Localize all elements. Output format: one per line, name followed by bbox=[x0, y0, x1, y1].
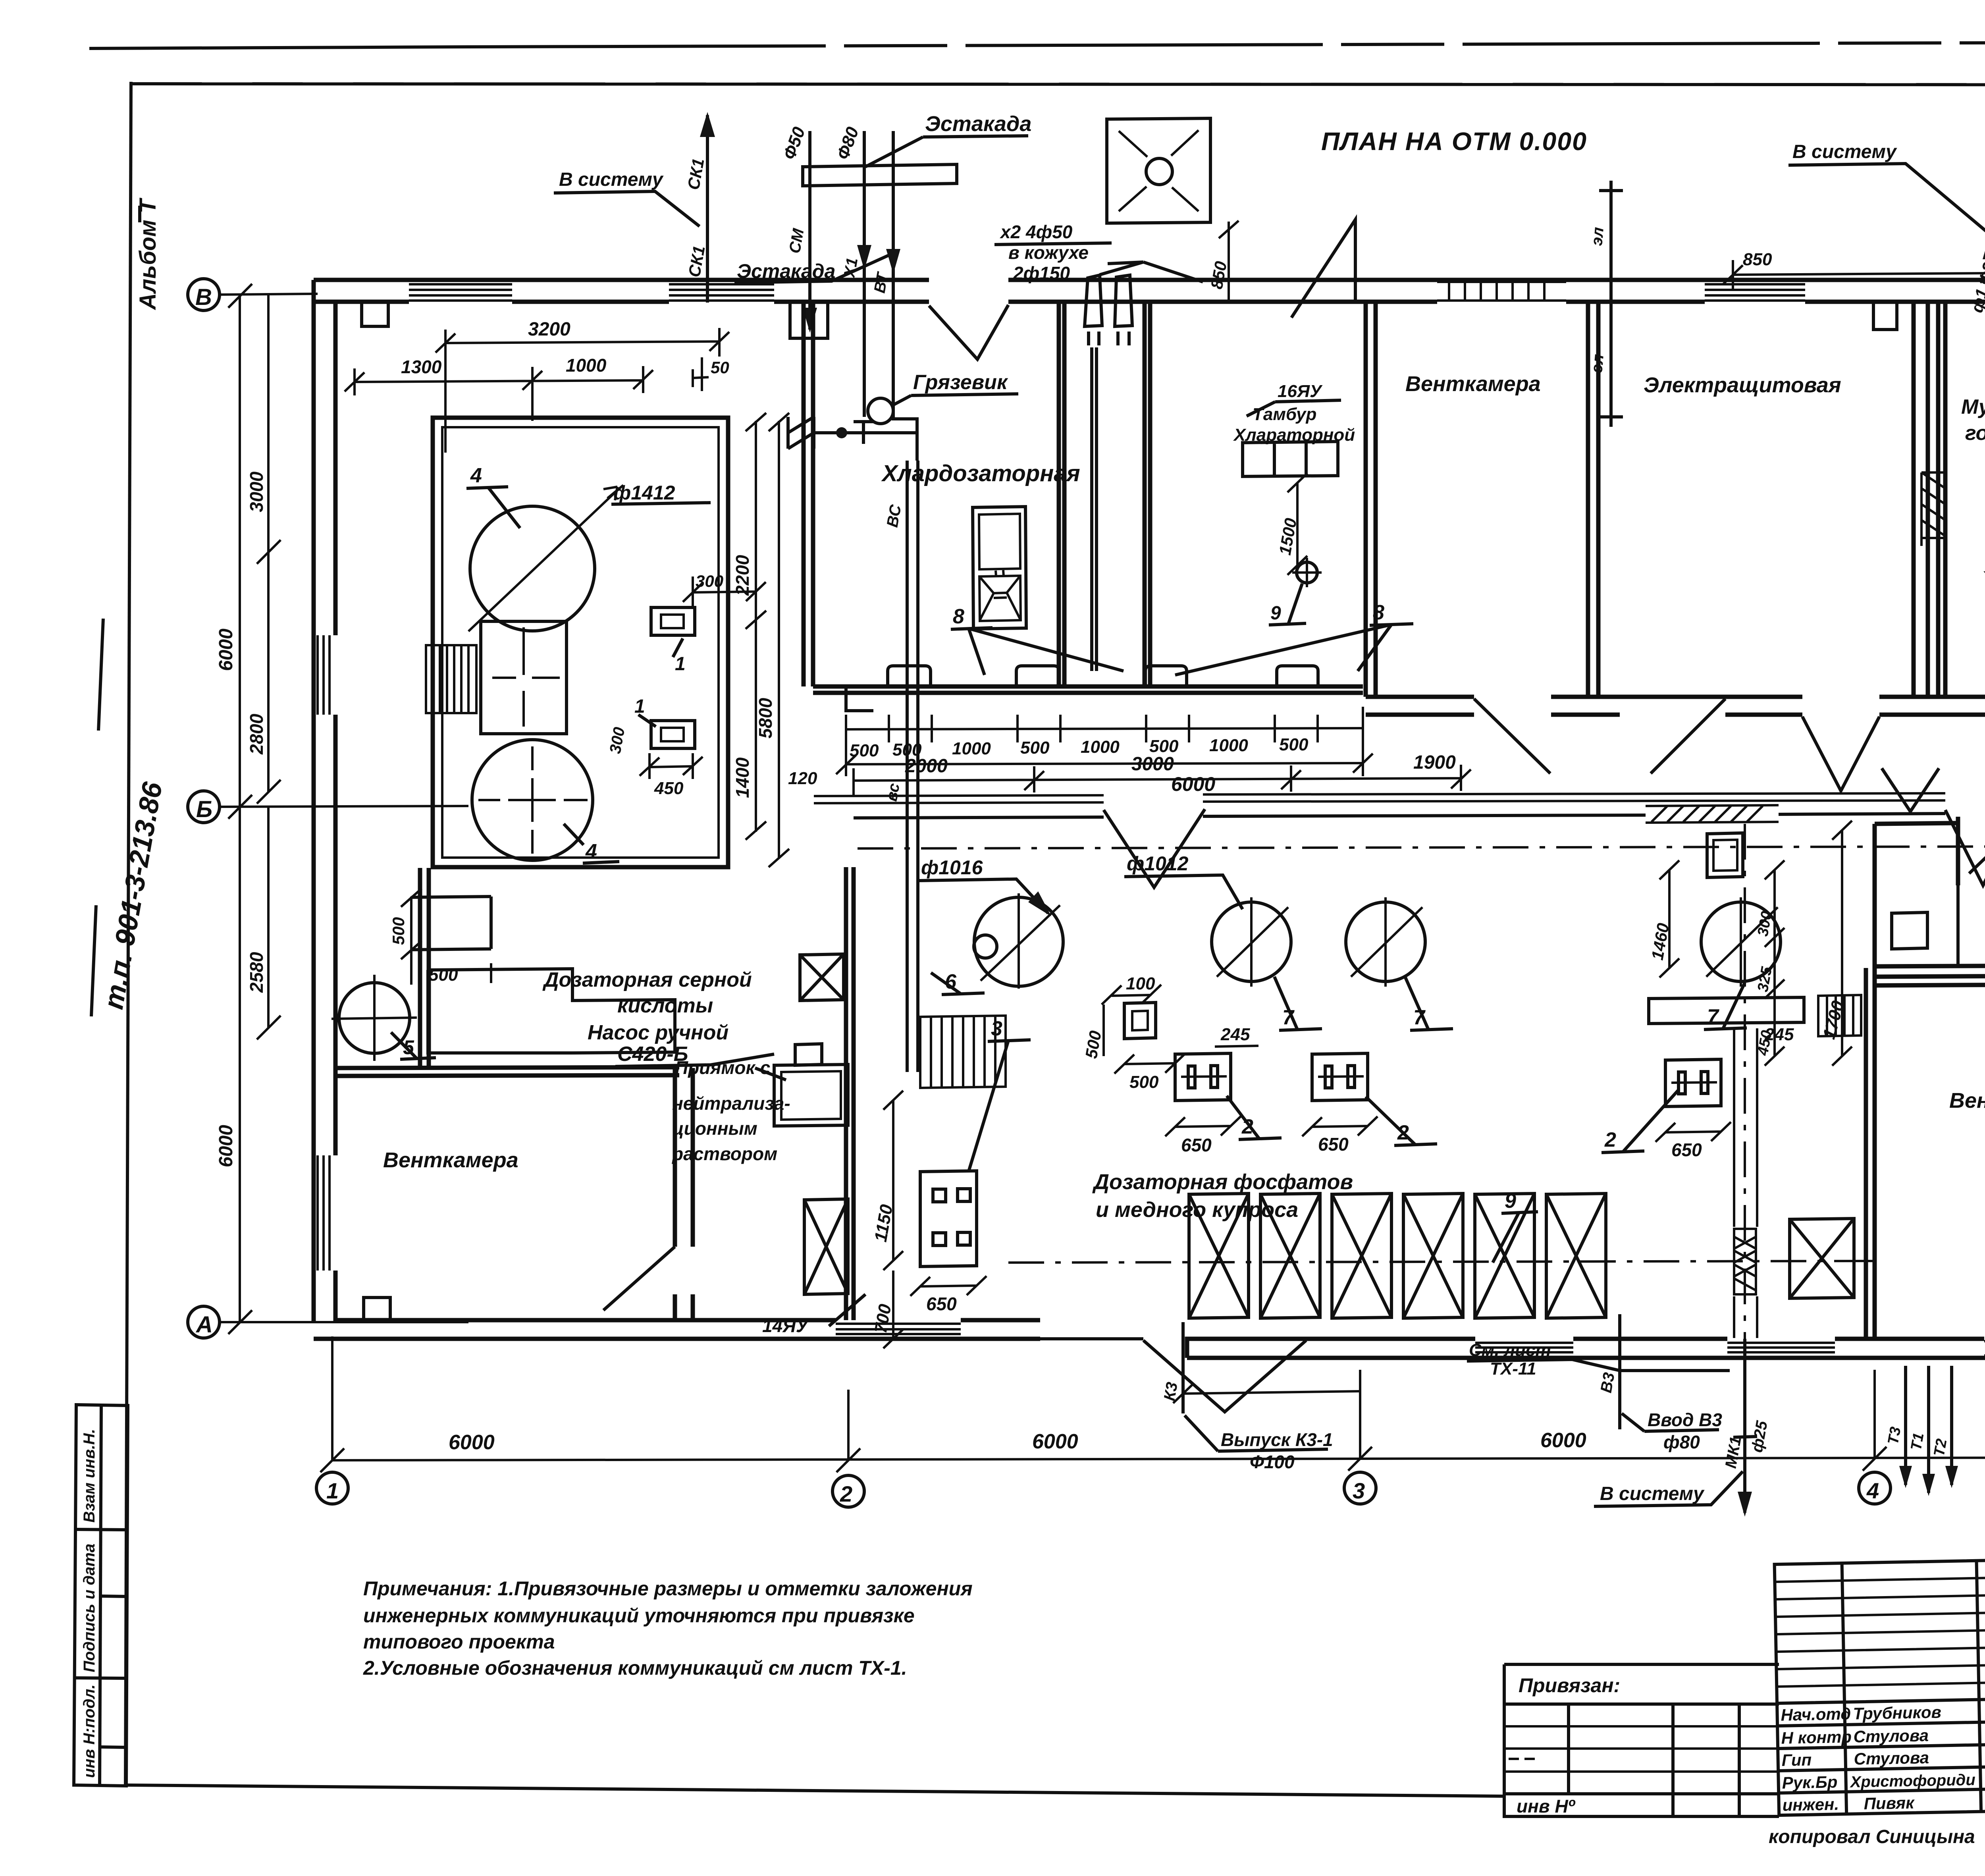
svg-text:х2 4ф50: х2 4ф50 bbox=[999, 222, 1073, 242]
T3 T1 T2 risers bbox=[1906, 1366, 1952, 1493]
stairs block bbox=[920, 1016, 1006, 1088]
svg-text:9: 9 bbox=[1270, 603, 1281, 624]
svg-text:Хлардозаторная: Хлардозаторная bbox=[881, 461, 1080, 486]
svg-text:6000: 6000 bbox=[1171, 773, 1215, 795]
stamp thin rows bbox=[1775, 1577, 1985, 1687]
left bottom stamp table bbox=[74, 1405, 128, 1786]
bottom wall right outer bbox=[1187, 1356, 1985, 1360]
svg-text:Венткамера: Венткамера bbox=[383, 1148, 518, 1172]
svg-text:Стулова: Стулова bbox=[1853, 1726, 1929, 1746]
svg-text:Взам инв.Н.: Взам инв.Н. bbox=[81, 1429, 98, 1523]
niche box pipes-entry bbox=[790, 303, 828, 338]
svg-text:2.Условные обозначения коммуни: 2.Условные обозначения коммуникаций см л… bbox=[363, 1657, 907, 1679]
svg-text:См. лист: См. лист bbox=[1469, 1340, 1551, 1360]
S420 pump rect bbox=[795, 1044, 822, 1065]
bottom wall left outer bbox=[314, 1337, 1040, 1341]
frame bottom bbox=[125, 1785, 1504, 1796]
svg-text:1000: 1000 bbox=[1209, 736, 1248, 755]
RIGHTROOMS bbox=[1866, 768, 1985, 1339]
svg-text:1000: 1000 bbox=[952, 739, 991, 758]
svg-text:Нач.отд: Нач.отд bbox=[1781, 1704, 1851, 1724]
grid bubble B bbox=[188, 791, 220, 823]
svg-text:Т2: Т2 bbox=[1931, 1438, 1950, 1458]
grid bubble A bbox=[188, 1306, 220, 1338]
left wall inner bbox=[333, 302, 338, 1322]
bottom wall left inner bbox=[335, 1318, 1040, 1323]
svg-text:Подпись и дата: Подпись и дата bbox=[81, 1544, 98, 1672]
left ventkamera top wall bbox=[335, 1067, 679, 1076]
svg-text:2ф150: 2ф150 bbox=[1013, 263, 1070, 283]
estakada rack bar bbox=[803, 164, 957, 186]
svg-text:1900: 1900 bbox=[1413, 752, 1456, 773]
toilet stall partitions bbox=[1958, 828, 1985, 965]
sanitary fixture bbox=[973, 507, 1026, 629]
upper band bottom wall bbox=[1366, 695, 1985, 699]
svg-text:ф80: ф80 bbox=[1663, 1432, 1700, 1452]
door V hall left bbox=[1104, 809, 1205, 887]
svg-text:8: 8 bbox=[953, 605, 964, 628]
svg-text:Х1: Х1 bbox=[840, 256, 861, 280]
toilet bottom wall bbox=[1875, 965, 1985, 966]
pipe X1 bbox=[863, 131, 866, 417]
svg-text:вс: вс bbox=[883, 782, 903, 802]
dim 1300 1000 bbox=[345, 366, 653, 421]
grid bubble 4 bbox=[1859, 1472, 1891, 1504]
priyamok small square bbox=[1124, 1003, 1156, 1039]
svg-text:6000: 6000 bbox=[1032, 1430, 1078, 1453]
svg-text:3200: 3200 bbox=[528, 319, 570, 340]
door V hall right bbox=[1945, 809, 1985, 885]
svg-text:5800: 5800 bbox=[755, 698, 776, 738]
svg-text:2800: 2800 bbox=[246, 713, 267, 755]
dim 650 c bbox=[1655, 1122, 1731, 1142]
dim 500 lower left bbox=[401, 889, 422, 959]
TITLEBLOCK bbox=[1775, 1550, 1985, 1817]
tank room walls inner bbox=[442, 427, 719, 858]
svg-text:Христофориди: Христофориди bbox=[1849, 1771, 1975, 1791]
svg-text:копировал Синицына: копировал Синицына bbox=[1769, 1826, 1975, 1847]
svg-text:нейтрализа-: нейтрализа- bbox=[672, 1093, 790, 1114]
small rect below tankroom bbox=[411, 897, 491, 950]
door leaf ventkamera bbox=[1474, 699, 1550, 773]
dim 1700 slanted bbox=[1832, 821, 1852, 1066]
svg-text:инженерных коммуникаций уточня: инженерных коммуникаций уточняются при п… bbox=[363, 1604, 915, 1627]
svg-text:Эстакада: Эстакада bbox=[925, 112, 1031, 136]
hall top thin wall bbox=[814, 792, 1985, 796]
svg-text:4: 4 bbox=[585, 840, 597, 863]
hall center dashdot bbox=[858, 846, 1985, 848]
dim 650 a bbox=[1165, 1116, 1241, 1136]
bottom wall right jog bbox=[1187, 1339, 1306, 1358]
svg-text:2000: 2000 bbox=[905, 756, 948, 777]
top wall gate door 2 bbox=[1291, 220, 1355, 318]
svg-text:500: 500 bbox=[1149, 737, 1179, 756]
svg-text:300: 300 bbox=[696, 572, 723, 590]
corridor V above sanuzel 1 bbox=[1882, 768, 1939, 812]
svg-text:Венткамера: Венткамера bbox=[1405, 372, 1541, 396]
dim 500 below bbox=[1114, 1054, 1185, 1074]
svg-text:2: 2 bbox=[1604, 1128, 1616, 1151]
svg-text:Насос ручной: Насос ручной bbox=[588, 1021, 728, 1044]
pump pad 2 a bbox=[1175, 1053, 1231, 1101]
svg-text:500: 500 bbox=[429, 965, 458, 985]
X-box on grid2 upper bbox=[800, 954, 844, 1001]
V3 riser bbox=[1618, 1314, 1621, 1429]
svg-text:В: В bbox=[195, 284, 212, 310]
canopy square with X bbox=[1107, 118, 1210, 223]
dim line k3 bbox=[1173, 1384, 1360, 1403]
svg-text:6000: 6000 bbox=[216, 629, 237, 671]
svg-text:Мужской: Мужской bbox=[1961, 395, 1985, 418]
svg-text:инв Нº: инв Нº bbox=[1517, 1796, 1576, 1816]
left dim line 3000/2800/2580 bbox=[267, 295, 270, 1028]
svg-text:В систему: В систему bbox=[1600, 1483, 1705, 1504]
grid bubble V bbox=[188, 279, 220, 310]
svg-text:Пивяк: Пивяк bbox=[1864, 1793, 1915, 1813]
left wall window band 2 bbox=[318, 1155, 330, 1271]
grid bubble 1 bbox=[316, 1472, 348, 1504]
left wall window band 1 bbox=[318, 635, 330, 715]
X-box row bbox=[1189, 1193, 1606, 1318]
svg-text:инв Н:подл.: инв Н:подл. bbox=[81, 1684, 98, 1778]
svg-text:7: 7 bbox=[1707, 1005, 1719, 1028]
svg-text:6000: 6000 bbox=[449, 1431, 495, 1454]
hatch band on hall wall bbox=[1646, 805, 1779, 823]
item 1 lower bbox=[651, 721, 695, 748]
stamp outer box bbox=[1775, 1550, 1985, 1815]
dim 850 right bbox=[1723, 260, 1985, 290]
svg-text:500: 500 bbox=[1020, 738, 1050, 758]
dim 300 upper bbox=[683, 576, 766, 607]
dim 850 top bbox=[1219, 221, 1239, 302]
chlorator 1 bbox=[1085, 275, 1102, 345]
tank upper diameter line bbox=[468, 485, 623, 631]
svg-text:3000: 3000 bbox=[1131, 754, 1174, 775]
item 8 block 2 bbox=[1016, 666, 1059, 686]
svg-text:500: 500 bbox=[389, 917, 408, 945]
top wall crenellated band 1 bbox=[1437, 282, 1566, 301]
shelf rect near MK1 bbox=[1649, 997, 1804, 1024]
svg-text:4: 4 bbox=[1866, 1478, 1879, 1503]
washbasin 1 bbox=[1892, 912, 1927, 949]
toilet top wall bbox=[1875, 820, 1985, 824]
item 8 block 1 bbox=[888, 666, 931, 686]
svg-text:Б: Б bbox=[196, 796, 212, 822]
dim 450 bbox=[640, 753, 703, 779]
bottom wall left window band bbox=[836, 1324, 961, 1334]
svg-text:50: 50 bbox=[711, 358, 729, 377]
pump pad 2 b bbox=[1312, 1053, 1368, 1101]
dim string 500s bbox=[846, 715, 1363, 742]
svg-text:500: 500 bbox=[1129, 1072, 1159, 1092]
item 1 upper bbox=[651, 607, 695, 635]
top wall window band 1 bbox=[409, 284, 512, 301]
svg-text:Дозаторная серной: Дозаторная серной bbox=[542, 968, 752, 991]
pipe VT bbox=[893, 131, 917, 461]
filter circle 2 f1012 bbox=[1212, 902, 1291, 981]
priyamok box bbox=[774, 1064, 848, 1126]
grid row line B bbox=[220, 806, 468, 807]
dim 500 rotated bbox=[1102, 1005, 1105, 1056]
svg-text:450: 450 bbox=[654, 779, 684, 798]
svg-text:Т1: Т1 bbox=[1908, 1432, 1927, 1452]
svg-text:Дозаторная фосфатов: Дозаторная фосфатов bbox=[1092, 1170, 1353, 1194]
svg-text:Привязан:: Привязан: bbox=[1519, 1674, 1620, 1697]
svg-text:245: 245 bbox=[1220, 1025, 1250, 1044]
MK1 riser dashdot bbox=[1744, 824, 1746, 1339]
svg-text:650: 650 bbox=[1671, 1139, 1702, 1160]
svg-text:ПЛАН НА ОТМ 0.000: ПЛАН НА ОТМ 0.000 bbox=[1321, 127, 1587, 156]
tank circle lower bbox=[472, 740, 593, 860]
bottom wall right inner bbox=[1306, 1337, 1985, 1341]
GRIDAXES bbox=[188, 279, 1985, 1507]
svg-text:1300: 1300 bbox=[401, 357, 442, 377]
toilet stall outer walls bbox=[1875, 817, 1958, 968]
svg-text:650: 650 bbox=[926, 1294, 957, 1314]
svg-text:Т3: Т3 bbox=[1885, 1426, 1904, 1446]
entrance V door leaves bbox=[1040, 1339, 1306, 1412]
bottom wall crenellated band bbox=[1984, 1341, 1985, 1355]
svg-text:ционным: ционным bbox=[672, 1118, 757, 1139]
svg-text:раствором: раствором bbox=[671, 1143, 777, 1164]
LOWERLEFT bbox=[331, 868, 822, 1320]
svg-text:1000: 1000 bbox=[1081, 737, 1120, 757]
svg-text:850: 850 bbox=[1743, 250, 1772, 269]
dim 6000 under bbox=[836, 707, 1373, 776]
MK1 hatch patch bbox=[1734, 1229, 1756, 1294]
X-box row centerline bbox=[1008, 1261, 1862, 1263]
dim 650 item3 bbox=[910, 1276, 987, 1296]
svg-text:6000: 6000 bbox=[1540, 1429, 1586, 1452]
svg-text:Трубников: Трубников bbox=[1853, 1702, 1941, 1723]
dims 450 325 300 right column bbox=[1765, 860, 1785, 1066]
svg-text:Хлараторной: Хлараторной bbox=[1233, 425, 1355, 445]
svg-text:120: 120 bbox=[788, 769, 817, 788]
LEFTMARGIN bbox=[74, 197, 168, 1786]
EXTWALLS bbox=[314, 220, 1985, 1412]
chlorator pipe down bbox=[1092, 347, 1097, 671]
svg-text:Тамбур: Тамбур bbox=[1253, 405, 1316, 424]
niche box 1 bbox=[362, 303, 388, 326]
paper edge top line bbox=[89, 47, 468, 48]
bottom-left niche box bbox=[364, 1298, 390, 1319]
top wall inner line bbox=[314, 300, 1985, 304]
dim 3200 bbox=[436, 328, 729, 453]
top wall window band 3 bbox=[1705, 284, 1805, 301]
left ventkamera right wall bbox=[675, 1068, 693, 1320]
pipe SM bbox=[808, 131, 811, 330]
MK1 channel wall bbox=[1734, 1028, 1757, 1338]
tank lower center lines bbox=[478, 746, 588, 854]
svg-text:2580: 2580 bbox=[246, 952, 267, 993]
filter circle 1 f1016 bbox=[974, 897, 1063, 986]
khlardozatornaya right wall bbox=[1059, 302, 1064, 686]
svg-text:ф1412: ф1412 bbox=[613, 482, 675, 504]
dim 500 sernaya bbox=[410, 950, 412, 985]
gryazevik circle bbox=[868, 398, 893, 424]
item 8 block 4 bbox=[1277, 666, 1318, 686]
SK1 riser line bbox=[706, 115, 709, 303]
svg-text:4: 4 bbox=[470, 464, 482, 487]
svg-text:Стулова: Стулова bbox=[1854, 1748, 1929, 1768]
pump block square bbox=[481, 621, 567, 734]
dim 1500 and item 9 bbox=[1287, 473, 1307, 575]
door V garderob bbox=[1802, 717, 1879, 791]
svg-text:Эстакада: Эстакада bbox=[737, 260, 836, 282]
svg-text:А: А bbox=[195, 1312, 213, 1338]
svg-text:кислоты: кислоты bbox=[617, 994, 713, 1017]
tank circle upper f1412 bbox=[470, 506, 595, 631]
stamp name rows bbox=[1777, 1698, 1985, 1793]
grid bubble 2 bbox=[833, 1475, 864, 1507]
garderob left wall hatched bbox=[1914, 302, 1945, 697]
K3 riser bbox=[1181, 1322, 1185, 1413]
khloratornaya left wall bbox=[1145, 302, 1150, 686]
svg-text:2200: 2200 bbox=[732, 555, 753, 596]
svg-text:Гип: Гип bbox=[1781, 1750, 1812, 1769]
svg-text:1000: 1000 bbox=[566, 355, 607, 376]
elektro right wall bbox=[1928, 302, 1938, 697]
svg-text:Примечания: 1.Привязочные разм: Примечания: 1.Привязочные размеры и отме… bbox=[363, 1577, 973, 1600]
dim 700 bbox=[883, 1271, 903, 1348]
dim 1150 bbox=[883, 1091, 903, 1270]
right ventkamera walls bbox=[1866, 968, 1875, 1339]
khlardozatornaya left wall bbox=[804, 302, 813, 686]
TOPANNOT bbox=[345, 112, 1985, 1072]
svg-text:14ЯУ: 14ЯУ bbox=[762, 1315, 810, 1336]
valve symbol bbox=[788, 417, 917, 449]
MK1 corridor pit box bbox=[1707, 833, 1743, 877]
svg-text:650: 650 bbox=[1181, 1135, 1212, 1155]
grid row line A bbox=[220, 1321, 468, 1323]
svg-text:Электращитовая: Электращитовая bbox=[1644, 373, 1841, 397]
svg-text:100: 100 bbox=[1126, 974, 1155, 993]
svg-text:ф1012: ф1012 bbox=[1127, 852, 1189, 875]
svg-text:Ф100: Ф100 bbox=[1250, 1452, 1295, 1472]
svg-text:16ЯУ: 16ЯУ bbox=[1278, 382, 1323, 401]
svg-text:6000: 6000 bbox=[216, 1125, 237, 1167]
svg-text:Венткамера: Венткамера bbox=[1949, 1089, 1985, 1112]
BOTTOMANNOT bbox=[1161, 1314, 1985, 1517]
frame left bbox=[125, 82, 131, 1786]
EL cable line bbox=[1609, 181, 1613, 427]
left ventkamera door bbox=[603, 1247, 675, 1310]
hatched block bbox=[426, 645, 476, 713]
door leaf middle mirror bbox=[1651, 699, 1725, 773]
svg-text:В систему: В систему bbox=[559, 169, 664, 190]
left attach table bbox=[1504, 1664, 1779, 1816]
chlorator 2 bbox=[1115, 275, 1132, 345]
tank room walls outer bbox=[433, 418, 728, 867]
bottom wall window band 2 bbox=[1727, 1343, 1835, 1352]
svg-text:1: 1 bbox=[675, 654, 686, 675]
TANKROOM bbox=[389, 413, 789, 985]
isolated X-box right bbox=[1790, 1219, 1854, 1298]
hall top thick band bbox=[854, 812, 1985, 818]
svg-text:Выпуск К3-1: Выпуск К3-1 bbox=[1221, 1429, 1333, 1450]
svg-text:1400: 1400 bbox=[732, 757, 753, 798]
X-box on grid2 lower tall bbox=[804, 1199, 848, 1294]
dim 1460 bbox=[1659, 860, 1679, 978]
svg-text:500: 500 bbox=[1279, 735, 1309, 754]
svg-text:типового проекта: типового проекта bbox=[363, 1631, 555, 1653]
svg-text:3: 3 bbox=[991, 1017, 1002, 1040]
dim 5800 bbox=[769, 413, 789, 867]
left wall outer bbox=[312, 280, 316, 1322]
frame top bbox=[130, 84, 1985, 85]
svg-text:2: 2 bbox=[840, 1481, 852, 1506]
top wall window band 2 bbox=[669, 284, 774, 301]
svg-text:9: 9 bbox=[1505, 1190, 1516, 1213]
left dim line 6000x2 bbox=[239, 295, 241, 1322]
stamp verticals bbox=[1842, 1559, 1985, 1814]
pump pad 2 c bbox=[1665, 1059, 1721, 1107]
bottom wall window band 1 bbox=[1475, 1343, 1573, 1352]
door V toilets bbox=[1969, 828, 1985, 873]
sernaya room niche walls bbox=[428, 969, 675, 1053]
sernaya room west wall bbox=[420, 868, 429, 1068]
svg-text:В систему: В систему bbox=[1792, 141, 1897, 162]
svg-text:инжен.: инжен. bbox=[1782, 1795, 1839, 1814]
MACHINEHALL bbox=[762, 792, 1985, 1379]
top wall outer line bbox=[314, 278, 1985, 282]
svg-text:1: 1 bbox=[326, 1478, 339, 1503]
svg-text:эл: эл bbox=[1588, 226, 1607, 247]
corridor dim 120 2000 3000 1900 bbox=[854, 765, 1471, 796]
item 8 block 3 bbox=[1145, 666, 1187, 686]
UPPERROOMS bbox=[788, 285, 1985, 877]
grid row line V bbox=[220, 294, 318, 295]
svg-text:гордероб: гордероб bbox=[1965, 422, 1985, 445]
svg-text:В3: В3 bbox=[1598, 1371, 1618, 1394]
svg-text:Грязевик: Грязевик bbox=[913, 371, 1008, 394]
dim 650 b bbox=[1302, 1116, 1378, 1136]
filter circle 4 bbox=[1701, 902, 1781, 981]
svg-text:245: 245 bbox=[1764, 1025, 1794, 1044]
ladder right ventkamera bbox=[1818, 995, 1861, 1036]
grid2 wall bbox=[846, 867, 854, 1320]
ventkamera upper right wall bbox=[1588, 302, 1598, 697]
svg-text:Ввод В3: Ввод В3 bbox=[1648, 1409, 1722, 1430]
wall under item8 bbox=[813, 686, 1363, 693]
grid bubble 3 bbox=[1344, 1472, 1376, 1504]
VS duct down bbox=[907, 461, 918, 1072]
item 3 cabinet bbox=[920, 1171, 977, 1267]
svg-text:650: 650 bbox=[1318, 1134, 1349, 1155]
svg-text:Рук.Бр: Рук.Бр bbox=[1782, 1772, 1838, 1792]
top wall gate door 1 bbox=[929, 305, 1008, 359]
dim chain 2200 1400 bbox=[746, 413, 766, 840]
niche box 3 bbox=[1873, 303, 1897, 330]
svg-text:3000: 3000 bbox=[246, 471, 267, 512]
svg-text:ф1016: ф1016 bbox=[921, 856, 983, 879]
ventkamera upper left wall bbox=[1366, 302, 1376, 697]
item 5 circle bbox=[339, 983, 410, 1053]
svg-text:3: 3 bbox=[1353, 1478, 1365, 1503]
svg-text:Н контр: Н контр bbox=[1781, 1728, 1852, 1747]
khloratornaya tambur cells bbox=[1243, 442, 1338, 476]
bottom dim line bbox=[332, 1457, 1985, 1460]
NOTES bbox=[363, 1577, 973, 1679]
filter circle 3 bbox=[1346, 902, 1425, 981]
